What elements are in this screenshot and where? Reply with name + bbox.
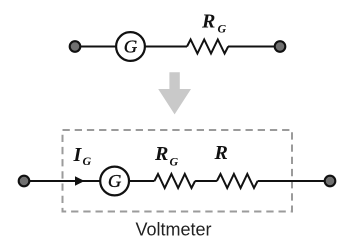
svg-text:G: G <box>170 155 179 169</box>
svg-text:I: I <box>73 144 83 166</box>
svg-text:R: R <box>201 11 215 33</box>
svg-text:R: R <box>154 143 168 165</box>
svg-text:Voltmeter: Voltmeter <box>135 220 211 240</box>
svg-text:G: G <box>83 154 92 168</box>
svg-text:R: R <box>214 142 228 164</box>
svg-text:G: G <box>108 171 122 191</box>
svg-text:G: G <box>218 22 227 36</box>
svg-text:G: G <box>124 37 138 57</box>
